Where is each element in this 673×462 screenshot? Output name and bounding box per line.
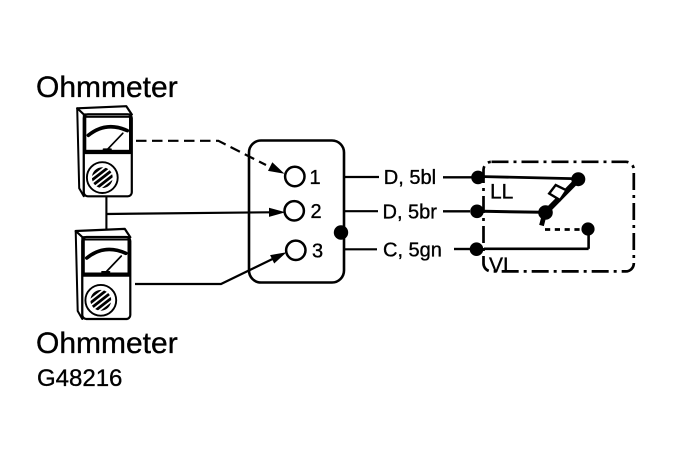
arrowhead at terminal 2 bbox=[269, 208, 286, 217]
svg-text:LL: LL bbox=[490, 181, 513, 204]
junction dot LL wire bbox=[471, 171, 485, 185]
wire C,5gn left segment bbox=[344, 248, 377, 250]
knob hatching bbox=[88, 288, 114, 312]
switch lever bbox=[546, 180, 578, 212]
front face bbox=[84, 114, 132, 196]
alternate contact dot bbox=[581, 222, 594, 235]
left face bbox=[76, 231, 83, 319]
svg-text:D, 5br: D, 5br bbox=[383, 201, 438, 223]
svg-text:Ohmmeter: Ohmmeter bbox=[36, 327, 178, 360]
needle bbox=[107, 256, 122, 272]
wire M2 probe to terminal 3 bbox=[135, 259, 273, 284]
svg-text:D, 5bl: D, 5bl bbox=[384, 167, 436, 189]
knob inner disc bbox=[92, 167, 113, 188]
front face bbox=[82, 237, 130, 319]
dashed alternate contact line bbox=[545, 228, 581, 231]
svg-text:G48216: G48216 bbox=[37, 365, 122, 392]
ohmmeter M2 (bottom meter icon) bbox=[76, 229, 131, 319]
wire M1/M2 shared lead (vertical) bbox=[105, 197, 107, 229]
junction dot VL wire bbox=[470, 242, 484, 256]
knob hatching bbox=[90, 166, 116, 190]
scale arc bbox=[88, 127, 127, 136]
display divider bbox=[84, 273, 129, 276]
terminal 3 bbox=[286, 241, 305, 260]
top face bbox=[77, 106, 132, 114]
switch box (dash-dot outline) bbox=[484, 162, 634, 272]
svg-text:3: 3 bbox=[312, 241, 323, 263]
knob inner disc bbox=[90, 290, 111, 311]
needle base tick bbox=[102, 271, 110, 273]
top face bbox=[76, 229, 131, 237]
needle bbox=[108, 133, 123, 149]
scale arc bbox=[87, 249, 126, 258]
wire to terminal 2 (horizontal) bbox=[106, 212, 269, 214]
arrowhead at terminal 3 bbox=[270, 252, 286, 263]
left face bbox=[77, 108, 84, 196]
arrowhead at terminal 1 bbox=[268, 162, 285, 174]
needle base tick bbox=[104, 148, 112, 150]
svg-text:C, 5gn: C, 5gn bbox=[383, 239, 442, 261]
switch pivot dot bbox=[538, 205, 553, 220]
switch contact dot (top) bbox=[571, 172, 585, 186]
node LL wire inside box bbox=[484, 177, 572, 179]
switch actuator (open square on lever) bbox=[549, 185, 566, 200]
wire from contact down to VL wire bbox=[587, 231, 590, 249]
svg-text:Ohmmeter: Ohmmeter bbox=[36, 71, 178, 104]
svg-text:VL: VL bbox=[489, 254, 515, 277]
knob outer ring bbox=[87, 162, 118, 193]
display window bbox=[85, 117, 130, 151]
junction dot middle wire bbox=[470, 205, 484, 219]
node middle wire inside box bbox=[484, 211, 542, 212]
svg-text:2: 2 bbox=[311, 201, 322, 223]
connector latch bump bbox=[334, 225, 348, 239]
terminal 2 bbox=[285, 201, 304, 220]
terminal 1 bbox=[285, 167, 304, 186]
connector block bbox=[249, 141, 344, 283]
display divider bbox=[85, 151, 130, 154]
wire D,5bl left segment bbox=[344, 176, 379, 178]
wire D,5bl right segment bbox=[443, 176, 472, 178]
knob outer ring bbox=[85, 285, 116, 316]
wire M1 probe to terminal 1 (dashed) bbox=[136, 141, 266, 165]
wire D,5br left segment bbox=[344, 210, 378, 212]
node VL wire inside box bbox=[484, 248, 589, 251]
wire C,5gn right segment bbox=[454, 248, 470, 250]
wire D,5br right segment bbox=[443, 210, 470, 212]
switch lever tail bbox=[542, 214, 545, 226]
ohmmeter M1 (top meter icon) bbox=[77, 106, 132, 196]
display window bbox=[84, 240, 129, 274]
svg-text:1: 1 bbox=[310, 167, 321, 189]
